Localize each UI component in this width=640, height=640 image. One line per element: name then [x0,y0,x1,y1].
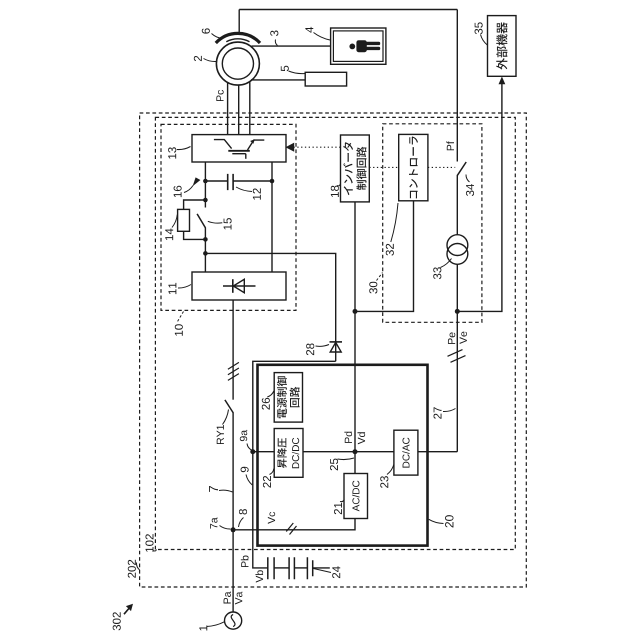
dashed box 202 (power supply system) [140,113,527,587]
3-phase wires Pc: motor to inverter 13 [228,82,250,135]
DC/AC box 23 [394,430,418,475]
label 35 [475,22,488,45]
label 12 [236,187,261,200]
wire: 34 to transformer 33 [456,175,458,235]
diode 28 [330,342,343,352]
label 14 [165,215,177,241]
box 5 (sensor) [305,72,346,86]
label 23 [380,465,394,488]
label 7 [209,486,232,492]
label 28 [306,343,329,355]
label 34 [466,175,474,197]
wire: node chain down to rectifier 11 [204,239,206,272]
dashed box 30 (controller unit) [383,124,482,322]
text 22: shoukouatsu DC/DC [277,438,287,468]
label 32 [386,203,398,256]
label Pf [446,141,454,150]
label 30 [369,273,382,294]
wire 5: motor to box 5 [251,79,305,81]
wire: RY1 to node 7a [232,412,234,530]
control arrow into 13 from inverter control circuit 18 [287,144,341,151]
labels Pe / Ve [448,332,455,344]
text 26: dengen seigyo kairo [277,376,300,418]
wire: motor top to top rail [238,10,240,35]
controller box 32 [399,134,428,200]
arrow 302 (system reference) [113,604,133,631]
person icon inside box 4 [349,40,380,52]
wire to external device 35 [457,84,502,312]
label 25 [330,458,354,470]
label 2 [194,56,217,62]
label 9a [240,430,252,450]
label 21 [334,500,344,515]
label 18 [331,184,341,197]
label 7a [210,517,230,529]
labels Pd / Vd [344,432,352,443]
external device box 35 [488,16,517,77]
wire: 13 right leg down to rectifier 11 [271,162,273,272]
power control circuit box 26 [274,373,302,423]
wire 8/Vc: 7a to AC/DC 21 [233,518,355,530]
3-phase slash marks [228,362,239,380]
AC/DC box 21 [344,474,368,519]
text 18: inverter control circuit [343,142,366,195]
text 35: gaibu kiki [496,22,507,69]
dashed box 102 [155,117,515,549]
DC bus Pd/Vd inside box 20 [253,451,457,453]
AC source 1 [225,612,242,629]
inverter box 13 [192,135,286,162]
load box 4 (subject/table) [331,28,386,64]
node dot left DC link [203,179,208,184]
relay RY1 (open switch) [225,400,233,413]
label 13 [168,147,190,159]
label 8 [239,509,248,527]
wire: controller 32 down to node [355,201,414,312]
wire 7: rectifier down to RY1 [232,300,234,400]
diode 28 branch: up to DC link [205,253,335,361]
capacitor 12 [205,174,272,190]
label 27 [434,407,456,419]
dashed box 10 (motor drive unit) [161,124,296,310]
label 20 [429,515,454,527]
arrow into box 35 [499,77,506,85]
wire Pb: down from Vc wire to capacitor unit 24 [253,530,268,568]
wire 9: branch up to node 9a and boost converter [253,361,336,530]
wire: 13 left leg down [204,162,206,208]
resistor 14 (inrush resistor) [178,200,206,239]
motor 2 (rotating anode / motor) [216,42,259,85]
node dot 9a [250,449,255,454]
IGBT symbol inside 13 (rotated) [214,139,264,159]
buck-boost DC/DC box 22 [274,429,303,478]
wire 3: motor to load box 4 [252,45,331,47]
node dot Pd/Vd [353,449,358,454]
label 202 [128,560,140,578]
label 33 [433,259,451,280]
wire: top rail across to Pf line [239,9,457,11]
wire 27: box 20 to controller unit [456,311,458,451]
node dot 7a [231,527,236,532]
inverter control circuit box 18 [341,135,370,202]
label 11 [168,283,191,294]
double-slash on Vc wire [286,523,296,535]
wire: inverter control 18 down through node to Pd [354,202,356,452]
label Pc [216,90,223,101]
label Vb [255,570,263,582]
label 102 [145,534,156,552]
label 22 [263,469,274,488]
stator arc 6 [216,33,260,43]
label 1 [199,622,224,631]
label 6 [202,28,223,38]
label 4 [305,27,330,40]
double-slash Pe marks [448,350,466,363]
node dot right DC link [270,179,275,184]
label 15 [208,218,232,229]
power supply unit box 20 (thick) [258,365,428,546]
label 3 [270,31,278,46]
label 24 [314,566,341,578]
label Pb [241,556,249,568]
switch 34 (open) [458,162,467,175]
arrow 16 (DC link pointer) [174,177,201,197]
node dot 14/15 top [203,198,208,203]
rectifier box 11 [192,272,286,300]
junction dot 33/27/35 [455,309,460,314]
wire: transformer to junction [456,264,458,311]
node dot 14/15 bottom [203,237,208,242]
label 10 [175,312,184,336]
text 32: controller [409,136,418,198]
wire: Pd node down to AC/DC 21 [354,452,356,474]
label RY1 [217,410,229,444]
switch 15 (bypass contactor) [197,214,205,240]
label Vc [268,512,275,524]
wire Pf: top rail down through switch 34 [456,10,458,162]
label 26 [262,391,274,410]
labels Pa / Va [224,592,231,604]
label 9 [241,467,253,485]
transformer 33 (two circles) [447,235,468,265]
wire: 7a down to AC source 1 [232,530,234,612]
label 5 [281,66,305,74]
capacitor bank 24 (three series capacitors) [268,557,330,579]
dotted control link 18-32-34 [369,166,455,168]
node dot on 18 line [353,309,358,314]
diode symbol inside 11 [223,279,256,293]
node dot to rectifier [203,251,208,256]
